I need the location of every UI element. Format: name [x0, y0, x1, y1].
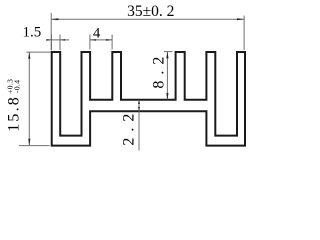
svg-text:2.2: 2.2	[121, 108, 138, 146]
heatsink profile outline	[52, 52, 245, 146]
svg-text:8.2: 8.2	[151, 51, 168, 89]
dimension 1.5 : extension line right	[59, 35, 61, 51]
dimension 1.5 : dimension line	[46, 39, 69, 41]
dimension 2.2 : bottom arrowhead	[138, 107, 140, 111]
dimension 8.2 : top arrowhead	[166, 52, 168, 59]
dimension 4 : extension line right	[111, 35, 113, 50]
dimension 2.2 : dimension line	[138, 100, 140, 151]
dimension 4 : extension line left	[89, 35, 91, 50]
dimension 1.5 : left outside arrowhead	[46, 39, 51, 41]
dimension 15.8 : bottom extension line	[19, 145, 50, 147]
dimension 15.8 : bottom arrowhead	[28, 139, 30, 146]
dimension 4 : dimension line	[90, 39, 112, 41]
dimension 8.2 : top extension line	[164, 51, 173, 53]
dimension 8.2 : dimension line	[166, 52, 168, 100]
dimension 1.5 : right outside arrowhead	[60, 39, 65, 41]
dimension 2.2 : top arrowhead	[138, 100, 140, 104]
dimension 8.2 : bottom arrowhead	[166, 93, 168, 100]
dimension 15.8 : top extension line	[26, 51, 50, 53]
dimension 1.5 : extension line left	[51, 35, 53, 51]
svg-text:15.8: 15.8	[6, 95, 23, 132]
dimension 35±0.2 : dimension line	[51, 18, 244, 20]
svg-text:35±0. 2: 35±0. 2	[127, 3, 174, 20]
dimension 4 : left arrowhead	[90, 39, 96, 41]
dimension 35±0.2 : right arrowhead	[237, 18, 244, 20]
dimension 35±0.2 : extension line left	[50, 13, 52, 50]
dimension 4 : right arrowhead	[106, 39, 112, 41]
dimension 15.8 : dimension line	[28, 52, 30, 145]
dimension 35±0.2 : left arrowhead	[51, 18, 58, 20]
svg-text:1.5: 1.5	[22, 24, 41, 40]
svg-text:4: 4	[93, 26, 101, 42]
svg-text:-0.4: -0.4	[13, 80, 22, 93]
dimension 35±0.2 : extension line right	[243, 16, 245, 51]
dimension 15.8 : top arrowhead	[28, 52, 30, 59]
